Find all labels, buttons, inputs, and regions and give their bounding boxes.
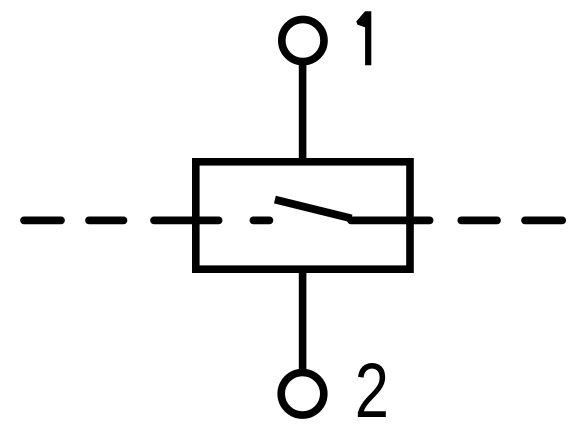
svg-text:2: 2: [355, 348, 389, 434]
